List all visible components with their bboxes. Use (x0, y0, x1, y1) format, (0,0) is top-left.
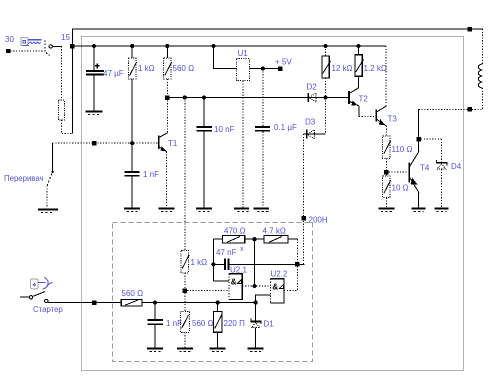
capacitor 1 nF (starter) (147, 303, 182, 348)
svg-text:110 Ω: 110 Ω (392, 145, 413, 154)
starter switch (20, 292, 63, 314)
svg-text:12 kΩ: 12 kΩ (332, 64, 353, 73)
resistor 560 Ohm (horizontal) (121, 289, 143, 306)
resistor 470 Ohm (213, 227, 264, 244)
resistor 220 Ohm (214, 303, 246, 348)
svg-text:T1: T1 (168, 139, 178, 148)
capacitor 10 nF (196, 98, 234, 208)
wire: collector output line (419, 107, 483, 112)
ground (interrupter) (38, 208, 58, 212)
resistor 560 Ohm (module vertical) (180, 312, 213, 348)
transistor T4 (389, 109, 430, 208)
svg-text:D4: D4 (451, 162, 462, 171)
svg-text:10 Ω: 10 Ω (392, 184, 409, 193)
wire: 470/4.7k mid down to U2.1 out (254, 239, 256, 286)
svg-text:0.1 µF: 0.1 µF (274, 123, 297, 132)
ground (1 nF) (124, 207, 140, 211)
resistor 1.2 kOhm (355, 44, 387, 89)
svg-text:47 µF: 47 µF (103, 69, 124, 78)
svg-text:560 Ω: 560 Ω (192, 319, 214, 328)
transistor T3 (376, 106, 397, 126)
svg-text:+ 5V: + 5V (275, 58, 292, 67)
gray inner frame (82, 37, 464, 371)
ground (T4 emitter) (412, 207, 426, 211)
ground (10 Ohm) (378, 207, 394, 211)
node 30 terminal (5, 35, 14, 53)
ground (T1 emitter) (159, 207, 175, 211)
svg-text:10 nF: 10 nF (214, 125, 235, 134)
svg-text:D1: D1 (264, 320, 275, 329)
resistor 1 kOhm (module) (181, 250, 207, 288)
wire: T1 base line (53, 141, 159, 146)
resistor 4.7 kOhm (263, 227, 298, 263)
wire: +12V top rail (72, 28, 483, 30)
svg-text:470 Ω: 470 Ω (224, 227, 246, 236)
svg-text:&: & (231, 278, 237, 287)
svg-text:560 Ω: 560 Ω (173, 64, 195, 73)
ground (U1) (234, 207, 249, 211)
inductor (ignition coil) (478, 29, 482, 110)
svg-text:47 nF: 47 nF (216, 248, 237, 257)
svg-text:1 kΩ: 1 kΩ (191, 258, 208, 267)
transistor T2 (349, 88, 376, 117)
svg-text:Переривач: Переривач (4, 174, 44, 183)
ground (47uF) (86, 110, 103, 114)
wire: 30 to ignition switch (10, 50, 44, 52)
fuse (58, 100, 64, 120)
ignition switch blade (44, 39, 46, 52)
ground (D1) (248, 347, 264, 351)
wire: switch to fuse (52, 45, 62, 47)
wire: node 200H (301, 134, 327, 264)
svg-text:1 nF: 1 nF (166, 319, 182, 328)
ground (0.1uF) (254, 207, 270, 211)
wire: starter line to U2.2 input (256, 295, 271, 303)
wire: third rail (167, 97, 348, 99)
ground (10 nF) (196, 207, 212, 211)
svg-text:220 П: 220 П (224, 319, 246, 328)
svg-text:T3: T3 (388, 115, 398, 124)
node: U2.1 input junction (183, 288, 188, 293)
diode D1 (zener) (250, 303, 274, 348)
wire: left riser (71, 29, 73, 134)
wire: bias line x=184.8 (184, 98, 186, 251)
transistor T1 (159, 98, 178, 208)
capacitor 47 nF (211, 239, 304, 281)
svg-text:1 nF: 1 nF (143, 170, 159, 179)
wire: T3 collector to rail2 (385, 46, 387, 106)
svg-text:30: 30 (5, 35, 14, 44)
starter key icon (30, 278, 52, 290)
svg-text:1 kΩ: 1 kΩ (138, 64, 155, 73)
wire: starter line (48, 300, 258, 304)
gate U2.2 (271, 267, 298, 303)
svg-text:T2: T2 (359, 95, 369, 104)
wire: U1 ground pin (242, 81, 244, 208)
ground (220) (210, 347, 226, 351)
diode D4 (zener) (421, 139, 462, 208)
svg-text:Стартер: Стартер (33, 305, 63, 314)
gray dashed module box (113, 223, 313, 362)
diode D2 (307, 83, 328, 103)
resistor 560 Ohm (top) (164, 44, 194, 98)
diode D3 (304, 118, 326, 139)
wire: T3 emitter (385, 126, 387, 136)
svg-text:4.7 kΩ: 4.7 kΩ (263, 227, 286, 236)
svg-text:&: & (272, 283, 278, 292)
svg-text:200H: 200H (309, 216, 328, 225)
+5V terminal (275, 58, 292, 71)
ground (1 nF starter) (147, 347, 163, 351)
svg-text:560 Ω: 560 Ω (122, 289, 144, 298)
wire: fuse to main rail riser (61, 120, 72, 134)
svg-text:T4: T4 (420, 164, 430, 173)
capacitor 0.1uF (255, 69, 297, 208)
svg-text:15: 15 (61, 33, 70, 42)
svg-text:x: x (240, 246, 244, 253)
resistor 1 kOhm (top) (129, 44, 155, 143)
svg-text:1.2 kΩ: 1.2 kΩ (364, 64, 387, 73)
capacitor 1 nF (at T1) (125, 143, 159, 207)
ground (560 module) (177, 347, 193, 351)
node: T4 base junction (384, 170, 389, 175)
wire: D2 junction down to D3 (325, 98, 327, 135)
capacitor 47uF (86, 44, 124, 111)
gate U2.1 (187, 266, 270, 300)
svg-text:U1: U1 (238, 49, 249, 58)
node: starter feed terminal (92, 300, 97, 305)
resistor 110 Ohm (383, 136, 413, 170)
resistor 12 kOhm (322, 44, 353, 98)
ignition key icon (21, 37, 42, 45)
wire: second rail (72, 45, 386, 47)
resistor 10 Ohm (383, 174, 409, 207)
interrupter switch (Переривач) (4, 143, 54, 207)
wire: junction to starter line crossing, 560 below (184, 293, 186, 312)
svg-text:D3: D3 (305, 118, 316, 127)
svg-text:U2.2: U2.2 (271, 270, 288, 279)
regulator U1 (211, 44, 280, 81)
ground (D4) (435, 207, 449, 211)
svg-text:D2: D2 (307, 83, 318, 92)
